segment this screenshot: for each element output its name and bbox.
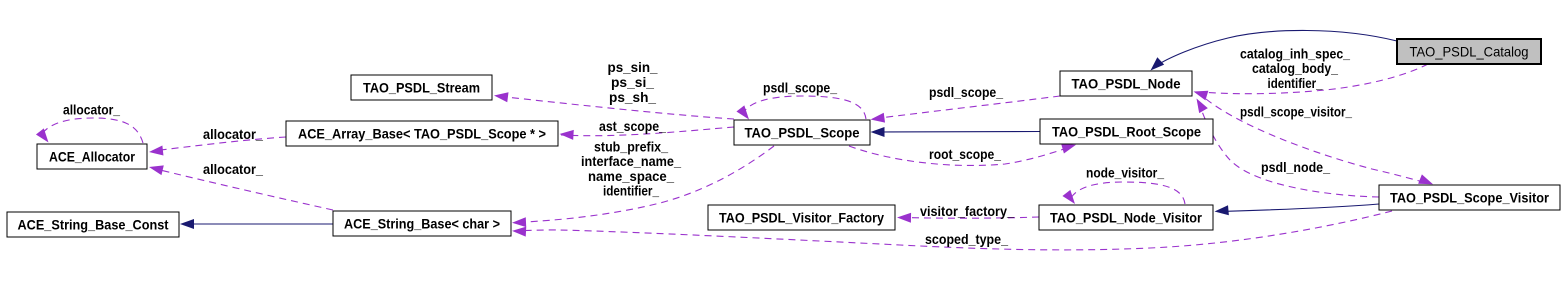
svg-text:allocator_: allocator_ (203, 161, 263, 177)
inheritance edge ACE_String_Base to ACE_String_Base_Const (180, 219, 333, 229)
svg-text:TAO_PSDL_Node_Visitor: TAO_PSDL_Node_Visitor (1050, 210, 1202, 226)
svg-text:name_space_: name_space_ (588, 168, 674, 184)
svg-text:catalog_inh_spec_: catalog_inh_spec_ (1240, 46, 1350, 62)
svg-text:scoped_type_: scoped_type_ (925, 231, 1008, 247)
edge ast_scope_ from TAO_PSDL_Scope to ACE_Array_Base (559, 118, 734, 140)
svg-text:ACE_Allocator: ACE_Allocator (49, 149, 135, 165)
class box TAO_PSDL_Catalog (1397, 39, 1541, 64)
edge allocator_ from ACE_Array_Base to ACE_Allocator (148, 126, 286, 157)
edge root_scope_ from TAO_PSDL_Scope to TAO_PSDL_Root_Scope (849, 140, 1077, 165)
class box TAO_PSDL_Stream (351, 75, 492, 100)
svg-text:TAO_PSDL_Node: TAO_PSDL_Node (1072, 76, 1181, 92)
class box TAO_PSDL_Root_Scope (1040, 119, 1213, 144)
edge psdl_scope_ from TAO_PSDL_Node to TAO_PSDL_Scope (870, 84, 1060, 124)
edge node_visitor_ self-loop on TAO_PSDL_Node_Visitor (1062, 165, 1185, 208)
svg-text:node_visitor_: node_visitor_ (1086, 165, 1164, 181)
svg-text:ACE_Array_Base< TAO_PSDL_Scope: ACE_Array_Base< TAO_PSDL_Scope * > (298, 126, 546, 142)
svg-text:psdl_scope_: psdl_scope_ (763, 80, 837, 96)
inheritance edge TAO_PSDL_Catalog to TAO_PSDL_Node (1147, 30, 1397, 74)
svg-text:psdl_scope_: psdl_scope_ (929, 84, 1003, 100)
svg-text:allocator_: allocator_ (203, 126, 263, 142)
svg-text:visitor_factory_: visitor_factory_ (920, 203, 1014, 219)
svg-text:ACE_String_Base< char >: ACE_String_Base< char > (344, 216, 500, 232)
class box TAO_PSDL_Visitor_Factory (708, 205, 895, 230)
edge visitor_factory_ from TAO_PSDL_Node_Visitor to TAO_PSDL_Visitor_Factory (897, 203, 1039, 223)
inheritance edge TAO_PSDL_Root_Scope to TAO_PSDL_Scope (871, 127, 1041, 137)
svg-text:TAO_PSDL_Scope: TAO_PSDL_Scope (745, 125, 860, 141)
edge psdl_scope_ self-loop on TAO_PSDL_Scope (736, 80, 866, 123)
svg-text:interface_name_: interface_name_ (581, 153, 681, 169)
edge catalog_inh_spec_ catalog_body_ identifier_ from TAO_PSDL_Catalog to TAO_PSDL_Node (1192, 46, 1428, 101)
class box TAO_PSDL_Node_Visitor (1039, 205, 1213, 230)
class box TAO_PSDL_Scope_Visitor (1379, 185, 1560, 210)
svg-text:psdl_node_: psdl_node_ (1261, 159, 1330, 175)
svg-text:TAO_PSDL_Scope_Visitor: TAO_PSDL_Scope_Visitor (1390, 190, 1549, 206)
svg-text:identifier_: identifier_ (603, 183, 659, 199)
edge psdl_node_ from TAO_PSDL_Scope_Visitor to TAO_PSDL_Node (1192, 96, 1379, 197)
class box TAO_PSDL_Scope (734, 120, 870, 145)
class box ACE_Allocator (37, 144, 147, 169)
svg-text:root_scope_: root_scope_ (929, 146, 1001, 162)
svg-text:TAO_PSDL_Root_Scope: TAO_PSDL_Root_Scope (1052, 124, 1201, 140)
svg-text:ps_sin_: ps_sin_ (608, 59, 658, 75)
svg-text:catalog_body_: catalog_body_ (1252, 60, 1338, 76)
edge allocator_ from ACE_String_Base to ACE_Allocator (148, 161, 333, 210)
inheritance edge TAO_PSDL_Scope_Visitor to TAO_PSDL_Node_Visitor (1214, 204, 1379, 216)
class box ACE_String_Base&lt; char &gt; (333, 211, 511, 236)
svg-text:stub_prefix_: stub_prefix_ (594, 139, 668, 155)
svg-text:identifier_: identifier_ (1268, 75, 1323, 91)
svg-text:TAO_PSDL_Stream: TAO_PSDL_Stream (363, 80, 480, 96)
svg-text:psdl_scope_visitor_: psdl_scope_visitor_ (1240, 104, 1352, 120)
svg-text:ps_sh_: ps_sh_ (609, 89, 656, 105)
class box ACE_Array_Base&lt; TAO_PSDL_Scope * &gt; (286, 121, 558, 146)
edge allocator_ self-loop on ACE_Allocator (36, 102, 143, 146)
class box TAO_PSDL_Node (1060, 71, 1192, 96)
svg-text:TAO_PSDL_Catalog: TAO_PSDL_Catalog (1410, 44, 1529, 60)
edge ps_sin_ ps_si_ ps_sh_ from TAO_PSDL_Scope to TAO_PSDL_Stream (493, 59, 734, 119)
svg-text:TAO_PSDL_Visitor_Factory: TAO_PSDL_Visitor_Factory (719, 210, 884, 226)
edge psdl_scope_visitor_ from TAO_PSDL_Node to TAO_PSDL_Scope_Visitor (1206, 99, 1435, 189)
svg-text:allocator_: allocator_ (63, 102, 120, 118)
svg-text:ps_si_: ps_si_ (611, 74, 654, 90)
class box ACE_String_Base_Const (7, 212, 179, 237)
edge stub_prefix_ interface_name_ name_space_ identifier_ from TAO_PSDL_Scope to ACE_String_Base (512, 139, 774, 228)
svg-text:ACE_String_Base_Const: ACE_String_Base_Const (18, 217, 169, 233)
edge scoped_type_ from TAO_PSDL_Scope_Visitor to ACE_String_Base (512, 211, 1392, 250)
svg-text:ast_scope_: ast_scope_ (599, 118, 666, 134)
